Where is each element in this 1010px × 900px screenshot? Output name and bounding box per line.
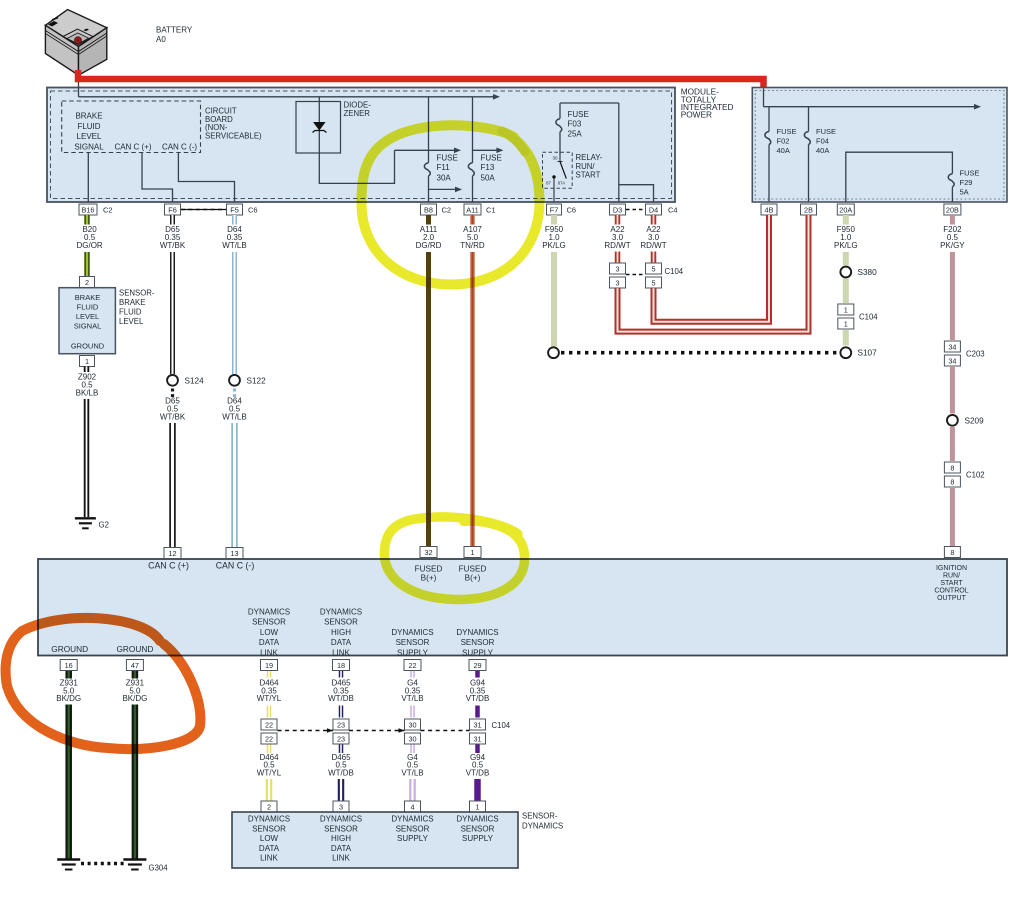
splice S122 [229,375,266,399]
svg-text:FUSED: FUSED [459,565,487,574]
svg-text:RUN/: RUN/ [943,572,960,579]
wire A107 5.0 TN/RD [460,215,485,547]
svg-text:GROUND: GROUND [71,342,105,351]
pin 32 (FUSED B+) [415,547,443,583]
pin D3 / pin D4 connector C4 [610,204,678,215]
label DIODE-ZENER [344,101,372,118]
svg-text:FUSE: FUSE [960,168,980,177]
label SENSOR-DYNAMICS [522,812,563,831]
fuse F11 30A [424,97,462,202]
pin A11 connector C1 [464,204,496,215]
wire A22 run C104-5 to 4B [654,215,770,322]
svg-text:SIGNAL: SIGNAL [74,143,104,152]
svg-text:C1: C1 [486,206,496,215]
svg-text:D4: D4 [649,205,658,214]
svg-text:SENSOR: SENSOR [324,824,358,833]
svg-text:SENSOR: SENSOR [252,824,286,833]
svg-text:34: 34 [948,356,956,365]
svg-text:SENSOR: SENSOR [324,618,358,627]
wire G94 0.5 VT/DB (lower) [466,745,490,802]
svg-text:BATTERY: BATTERY [156,26,193,35]
svg-text:DATA: DATA [331,844,352,853]
svg-text:DYNAMICS: DYNAMICS [320,815,362,824]
svg-text:B(+): B(+) [465,574,481,583]
circuit board (non-serviceable) inner box [62,101,201,153]
svg-text:G2: G2 [99,521,109,530]
svg-text:VT/LB: VT/LB [401,694,423,703]
relay Run/Start [543,152,573,202]
svg-text:F29: F29 [960,178,973,187]
module Totally Integrated Power (left box) [47,88,675,203]
svg-text:SERVICEABLE): SERVICEABLE) [205,131,262,140]
wire battery B+ feed (red) [78,70,764,89]
svg-text:DG/OR: DG/OR [76,241,102,250]
wire D64 0.35 WT/LB (upper) [222,215,246,374]
svg-text:4B: 4B [765,205,774,214]
splice at F950 / dotted link to S107 [548,347,838,358]
svg-text:12: 12 [168,549,176,558]
svg-text:B8: B8 [424,205,433,214]
pin B16 connector C2 [79,204,113,215]
wire D465 0.5 WT/DB (lower) [328,745,354,802]
splice S380 [840,267,877,278]
wire Z931 5.0 BK/DG (pin 16) [56,671,81,859]
svg-text:30: 30 [408,734,416,743]
svg-text:23: 23 [337,720,345,729]
svg-text:18: 18 [337,661,345,670]
svg-text:16: 16 [65,661,73,670]
svg-text:SUPPLY: SUPPLY [397,648,429,657]
label CIRCUIT BOARD (NON-SERVICEABLE) [205,107,262,141]
wire G4 0.5 VT/LB (lower) [401,745,423,802]
svg-text:4: 4 [410,802,414,811]
svg-text:RELAY-: RELAY- [576,153,603,162]
node CAN C (-) [162,143,197,152]
svg-text:BRAKE: BRAKE [119,298,145,307]
wire D65 0.5 WT/BK (lower) [160,397,186,548]
svg-text:LOW: LOW [260,628,279,637]
svg-text:2: 2 [85,278,89,287]
svg-text:TN/RD: TN/RD [460,241,485,250]
svg-text:BRAKE: BRAKE [75,111,102,120]
svg-text:WT/DB: WT/DB [328,694,354,703]
pin 13 (CAN C -) [216,548,255,571]
svg-text:C2: C2 [442,206,452,215]
svg-text:DATA: DATA [259,844,280,853]
splice S124 [167,375,204,399]
svg-text:WT/YL: WT/YL [257,694,282,703]
svg-text:D3: D3 [613,205,622,214]
svg-text:WT/BK: WT/BK [160,413,186,422]
svg-text:FUSE: FUSE [777,127,797,136]
svg-text:CAN C (-): CAN C (-) [216,561,255,571]
connector C104 dashed link line [278,721,511,733]
node GROUND pin 47 [116,644,153,671]
svg-text:DYNAMICS: DYNAMICS [456,628,498,637]
svg-text:32: 32 [424,548,432,557]
wire CAN C (+) internal [142,153,173,203]
wire G4 0.35 VT/LB (upper) [401,671,423,718]
pin 20A [837,204,854,215]
svg-text:F02: F02 [777,136,790,145]
connector C104 pin 1 (right) [838,279,879,346]
svg-text:HIGH: HIGH [331,834,351,843]
svg-text:DYNAMICS: DYNAMICS [456,815,498,824]
svg-text:BK/DG: BK/DG [122,694,147,703]
svg-text:VT/LB: VT/LB [401,768,423,777]
svg-text:DYNAMICS: DYNAMICS [522,822,563,831]
svg-text:S124: S124 [185,376,205,385]
svg-text:PK/LG: PK/LG [834,241,858,250]
wire D464 0.35 WT/YL (upper) [257,671,282,718]
wire D65 0.35 WT/BK (upper) [160,215,186,374]
svg-text:SENSOR: SENSOR [461,638,495,647]
svg-text:30: 30 [552,156,558,161]
ground G304 (left) [57,860,80,870]
svg-text:FLUID: FLUID [119,308,142,317]
svg-text:19: 19 [265,661,273,670]
svg-text:BK/LB: BK/LB [76,388,99,397]
svg-text:47: 47 [131,661,139,670]
fuse F03 25A [556,103,619,154]
svg-text:SENSOR-: SENSOR- [119,289,155,298]
svg-text:DYNAMICS: DYNAMICS [248,815,290,824]
svg-text:G304: G304 [149,864,169,873]
svg-text:WT/BK: WT/BK [160,241,186,250]
svg-text:1: 1 [85,357,89,366]
svg-text:C104: C104 [859,313,878,322]
svg-text:DYNAMICS: DYNAMICS [391,628,433,637]
svg-text:20B: 20B [946,205,959,214]
pin 4B [761,204,777,215]
wire A22 3.0 RD/WT (from D3) [604,215,630,263]
svg-text:DG/RD: DG/RD [416,241,442,250]
wire F202 (lower) [950,488,955,547]
node DYNAMICS SENSOR SUPPLY pin 29 [456,628,498,671]
svg-text:F13: F13 [481,163,495,172]
svg-text:F03: F03 [568,120,582,129]
svg-text:SUPPLY: SUPPLY [462,834,494,843]
wire G94 0.35 VT/DB (upper) [466,671,490,718]
svg-text:34: 34 [948,342,956,351]
pin 3 (sensor-dynamics) [333,801,349,812]
svg-text:LEVEL: LEVEL [77,132,102,141]
svg-text:B16: B16 [82,205,95,214]
wire diode-zener return path [319,148,461,184]
svg-text:VT/DB: VT/DB [466,694,490,703]
wire CAN C (-) internal [178,153,234,203]
pin 20B [944,204,961,215]
label BATTERY A0 [156,26,193,44]
bus B+ feed with arrow (left module) [79,82,501,100]
wire F202 0.5 PK/GY (upper) [940,215,965,340]
svg-text:PK/LG: PK/LG [542,241,566,250]
pin 12 (CAN C +) [148,548,189,571]
svg-text:DYNAMICS: DYNAMICS [391,815,433,824]
svg-text:C203: C203 [966,350,985,359]
pin B8 connector C2 [421,204,452,215]
wire A111 2.0 DG/RD [416,215,442,547]
wire B20 0.5 DG/OR [76,215,102,277]
pin F7 connector C6 [547,204,577,215]
node BRAKE FLUID LEVEL SIGNAL [74,111,104,151]
label SENSOR-BRAKE FLUID LEVEL [119,289,155,327]
svg-text:2: 2 [267,802,271,811]
svg-text:WT/LB: WT/LB [222,241,246,250]
svg-text:87A: 87A [558,181,566,186]
svg-text:DYNAMICS: DYNAMICS [320,608,362,617]
node CAN C (+) [114,143,151,152]
svg-text:LINK: LINK [260,648,278,657]
svg-text:BK/DG: BK/DG [56,694,81,703]
splice S209 [947,415,984,426]
svg-text:3: 3 [615,278,619,287]
svg-text:31: 31 [473,734,481,743]
svg-text:SENSOR: SENSOR [396,824,430,833]
svg-text:30: 30 [408,720,416,729]
svg-text:SUPPLY: SUPPLY [462,648,494,657]
svg-text:CAN C (-): CAN C (-) [162,143,197,152]
svg-text:BRAKE: BRAKE [75,293,100,302]
label MODULE-TOTALLY INTEGRATED POWER [681,87,734,120]
svg-text:A11: A11 [466,205,478,214]
fuse F13 50A [468,97,503,202]
wire F03 feed to pins D3/D4 [619,103,654,202]
svg-text:3: 3 [339,802,343,811]
svg-text:1: 1 [844,319,848,328]
svg-text:SUPPLY: SUPPLY [397,834,429,843]
svg-text:F5: F5 [230,205,239,214]
fuse F04 40A [804,107,836,202]
pin 8 (IGNITION RUN/START CONTROL OUTPUT) [934,547,968,602]
svg-text:ZENER: ZENER [344,109,371,118]
connector C104 pin 23 [333,719,349,744]
svg-text:31: 31 [473,720,481,729]
wire F950 1.0 PK/LG (from 20A) [834,215,858,266]
svg-text:23: 23 [337,734,345,743]
svg-text:8: 8 [950,477,954,486]
svg-text:C6: C6 [567,206,577,215]
wire brake fluid level signal (internal) [87,153,89,203]
svg-text:F6: F6 [168,205,177,214]
svg-text:START: START [576,171,601,180]
fuse F29 5A [846,152,980,202]
wire D464 0.5 WT/YL (lower) [257,745,282,802]
pin 1 (sensor-dynamics) [470,801,486,812]
svg-text:VT/DB: VT/DB [466,768,490,777]
svg-text:DATA: DATA [331,638,352,647]
bus B+ feed with arrow (right module) [764,89,982,110]
svg-text:FLUID: FLUID [77,122,100,131]
svg-text:C6: C6 [248,206,258,215]
connector C104 pin 31 [470,719,486,744]
svg-text:RUN/: RUN/ [576,162,596,171]
svg-text:5: 5 [651,278,655,287]
pin 1 (sensor-brake fluid level) [80,356,95,367]
wire D64 0.5 WT/LB (lower) [222,397,246,548]
svg-text:SIGNAL: SIGNAL [74,322,102,331]
wire F950 1.0 PK/LG (from F7) [542,215,566,347]
pin 2B [801,204,817,215]
svg-text:8: 8 [950,463,954,472]
svg-text:CAN C (+): CAN C (+) [114,143,151,152]
svg-text:LINK: LINK [332,648,350,657]
svg-text:CAN C (+): CAN C (+) [148,561,189,571]
node DYNAMICS SENSOR LOW DATA LINK pin 19 [248,608,290,671]
svg-text:FUSE: FUSE [437,154,458,163]
svg-text:8: 8 [950,548,954,557]
svg-text:S380: S380 [858,268,878,277]
svg-text:30A: 30A [437,174,452,183]
svg-text:FLUID: FLUID [77,303,99,312]
svg-text:SENSOR: SENSOR [461,824,495,833]
ground G2 [75,518,109,529]
svg-text:40A: 40A [777,146,790,155]
svg-text:HIGH: HIGH [331,628,351,637]
svg-text:1: 1 [844,305,848,314]
svg-text:DYNAMICS: DYNAMICS [248,608,290,617]
svg-text:LINK: LINK [260,854,278,863]
wire A22 3.0 RD/WT (from D4) [640,215,666,263]
connector C203 pins 34 [944,341,984,366]
wire A22 run C104-3 to 2B [618,215,809,332]
pin 4 (sensor-dynamics) [405,801,421,812]
svg-text:FUSE: FUSE [568,110,589,119]
svg-text:C102: C102 [966,471,985,480]
highlighter yellow circle (fuses F11/F13 and wires) [361,125,539,284]
svg-text:C104: C104 [492,721,511,730]
svg-text:OUTPUT: OUTPUT [937,595,967,602]
svg-text:WT/LB: WT/LB [222,413,246,422]
svg-text:LINK: LINK [332,854,350,863]
svg-text:40A: 40A [816,146,829,155]
svg-text:CONTROL: CONTROL [934,587,968,594]
svg-text:22: 22 [265,720,273,729]
pin 2 (sensor-dynamics) [261,801,277,812]
svg-text:B(+): B(+) [421,574,437,583]
wire Z902 0.5 BK/LB [76,367,99,518]
svg-text:C104: C104 [665,267,684,276]
svg-text:87: 87 [546,181,551,186]
svg-text:START: START [940,580,963,587]
svg-text:S209: S209 [965,416,985,425]
svg-text:DATA: DATA [259,638,280,647]
svg-text:FUSE: FUSE [481,154,502,163]
svg-text:C4: C4 [668,206,678,215]
svg-text:C2: C2 [103,206,113,215]
svg-text:LEVEL: LEVEL [76,312,99,321]
svg-text:5: 5 [651,264,655,273]
highlighter orange circle (GROUND pins) [6,618,201,749]
svg-text:LOW: LOW [260,834,279,843]
svg-text:22: 22 [265,734,273,743]
svg-text:F11: F11 [437,163,451,172]
svg-text:25A: 25A [568,129,583,138]
svg-text:3: 3 [615,264,619,273]
svg-text:S122: S122 [247,376,267,385]
diode-zener D1 box [296,102,341,154]
svg-text:GROUND: GROUND [116,644,153,654]
svg-text:FUSED: FUSED [415,565,443,574]
svg-text:IGNITION: IGNITION [936,565,967,572]
svg-text:S107: S107 [858,349,878,358]
wire Z931 5.0 BK/DG (pin 47) [122,671,147,859]
battery A0 [45,10,106,76]
connector C104 pins 3 and 5 [610,263,684,288]
svg-text:1: 1 [470,548,474,557]
label RELAY-RUN/START [576,153,603,180]
module bottom (antilock brakes / dynamics) [38,559,1007,656]
diode-zener symbol [313,97,327,153]
splice S107 [840,347,877,358]
component sensor-brake fluid level box [59,288,115,354]
pin 1 (FUSED B+) [459,547,487,583]
svg-text:22: 22 [408,661,416,670]
svg-text:RD/WT: RD/WT [640,241,666,250]
svg-text:FUSE: FUSE [816,127,836,136]
pin 2 (sensor-brake fluid level) [80,277,95,288]
svg-text:POWER: POWER [681,110,712,120]
svg-text:WT/YL: WT/YL [257,768,282,777]
node GROUND pin 16 [51,644,88,671]
svg-text:GROUND: GROUND [51,644,88,654]
svg-text:SENSOR-: SENSOR- [522,812,558,821]
ground G304 (right) with dotted link [81,860,168,873]
node DYNAMICS SENSOR SUPPLY pin 22 [391,628,433,671]
fuse F02 40A [765,107,797,202]
module Totally Integrated Power (right box) [752,88,1007,203]
wire D465 0.35 WT/DB (upper) [328,671,354,718]
svg-text:WT/DB: WT/DB [328,768,354,777]
svg-text:50A: 50A [481,174,496,183]
svg-text:5A: 5A [960,187,969,196]
svg-text:1: 1 [475,802,479,811]
highlighter yellow circle (FUSED B+ pins) [384,517,524,600]
svg-text:A0: A0 [156,35,166,44]
wire F202 (middle) [950,366,955,414]
svg-text:13: 13 [230,549,238,558]
svg-text:PK/GY: PK/GY [940,241,965,250]
connector C102 pins 8 [944,427,984,487]
svg-text:29: 29 [473,661,481,670]
svg-text:SENSOR: SENSOR [252,618,286,627]
svg-text:20A: 20A [839,205,852,214]
pin F6 / pin F5 connector C6 [165,204,258,215]
svg-text:LEVEL: LEVEL [119,317,144,326]
svg-text:F7: F7 [550,205,559,214]
svg-text:F04: F04 [816,136,829,145]
svg-text:SENSOR: SENSOR [396,638,430,647]
svg-text:RD/WT: RD/WT [604,241,630,250]
connector C104 pin 30 [405,719,421,744]
node DYNAMICS SENSOR HIGH DATA LINK pin 18 [320,608,362,671]
svg-text:2B: 2B [804,205,813,214]
connector C104 pin 22 [261,719,277,744]
component sensor-dynamics box [232,812,518,868]
